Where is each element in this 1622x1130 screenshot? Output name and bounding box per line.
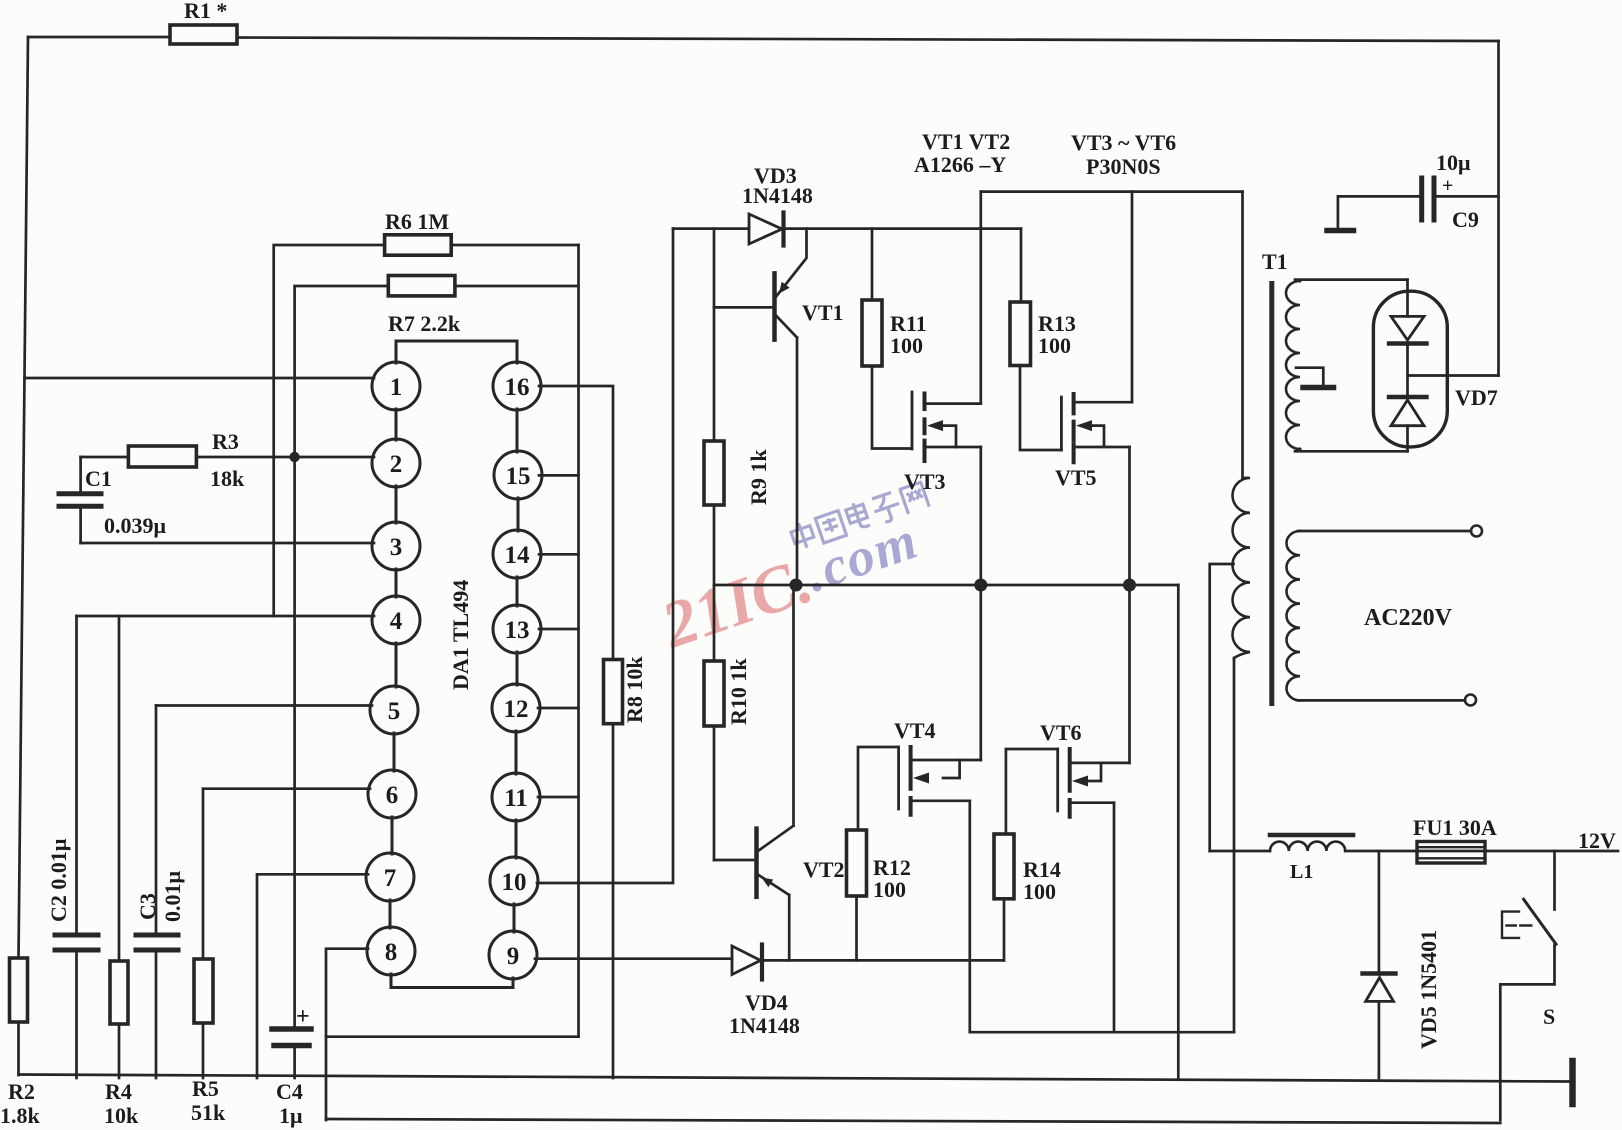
wire R14 bottom lead [1003,899,1006,961]
resistor R14 [994,834,1014,899]
wire R13 top feed [1020,229,1023,302]
wire VT6 drain down [1113,803,1116,1032]
pin 15 [494,451,542,499]
wire C3 bottom lead [155,950,158,1078]
node pin2 feedback junction [289,452,299,462]
wire pin 15 row [539,474,579,477]
svg-text:T1: T1 [1262,249,1288,274]
wire pin 12 row [538,707,579,710]
node junction VT3/VT4 [974,579,987,592]
wire feedback bus vertical (R6/R7 right to pins 15,14,13,12,11) [577,245,580,1037]
svg-text:VD7: VD7 [1455,385,1498,410]
wire VD5 branch [1378,851,1381,973]
wire pin 11 row [538,796,579,799]
svg-text:1N4148: 1N4148 [729,1013,800,1038]
resistor R3 [128,446,196,467]
wire R12 bottom lead [855,896,858,960]
pin 14 [493,530,541,578]
svg-text:2: 2 [390,451,403,478]
capacitor C2 [55,935,98,950]
dual diode VD7 capsule [1373,291,1447,447]
wire L1 to FU1 [1345,850,1417,853]
wire VD4 row (pin9 net to R12,R14 bottoms) [762,959,1004,962]
wire pin2 junction down to C4 [293,457,296,1029]
wire C2 bottom lead [75,950,78,1078]
resistor R2 [10,958,28,1022]
svg-text:18k: 18k [210,466,245,491]
pin 10 [490,857,538,905]
svg-text:A1266 –Y: A1266 –Y [914,152,1006,177]
wire pin 5 row [156,704,372,707]
svg-text:0.039μ: 0.039μ [104,513,167,538]
wire pin 2 row [197,456,375,459]
wire FU1 to 12V output [1417,850,1618,853]
wire switch bottom to bottom row [1500,945,1554,1120]
svg-text:R4: R4 [105,1079,132,1104]
switch S contact bracket [1502,912,1519,938]
wire primary-bottom row [970,1031,1234,1034]
svg-text:+: + [1442,175,1453,197]
wire upper supply rail [981,190,1243,193]
IC DA1 TL494 pin circles [366,362,542,979]
svg-text:VT3: VT3 [904,469,946,494]
wire top rail from left border through R1 to right border [28,37,1499,41]
svg-text:1: 1 [390,374,403,401]
svg-text:100: 100 [1023,879,1056,904]
svg-text:12: 12 [504,696,529,723]
MOSFET VT3 (P30N0S) [911,392,914,449]
T1 primary winding (left of core) [1233,478,1251,660]
resistor R11 [862,300,882,366]
wire AC winding top lead [1298,530,1471,533]
svg-text:100: 100 [890,333,923,358]
resistor R7 [388,276,455,296]
T1 feedback winding (top right of core) [1286,281,1300,449]
capacitor C9 electrolytic [1422,178,1434,220]
diode VD3 1N4148 [749,214,782,244]
resistor R12 [847,830,867,896]
pin 16 [493,362,541,410]
svg-text:100: 100 [1038,333,1071,358]
wire R11 top lead [871,229,874,300]
T1 AC220V winding (bottom right of core) [1287,531,1301,700]
svg-text:AC220V: AC220V [1364,605,1453,631]
MOSFET VT6 (P30N0S) [1056,749,1059,811]
wire switch branch [1553,851,1556,910]
svg-text:VT3 ~ VT6: VT3 ~ VT6 [1071,130,1176,155]
diode VD4 1N4148 [732,946,761,975]
wire T1 primary bottom end [1233,658,1236,1032]
wire output row to L1 [1210,850,1270,853]
svg-text:C9: C9 [1452,207,1479,232]
wire pin 1 net [25,377,375,380]
resistor R6 [385,235,452,255]
IC pin chain connectors [390,409,518,932]
wire pin 9 row to VD4 [535,957,732,960]
wire R4 bottom lead [118,1024,121,1078]
pin 1 [372,362,420,410]
pin 11 [492,773,540,821]
svg-text:C3: C3 [135,893,160,920]
pin 3 [372,522,420,570]
wire drain junction row [714,584,1178,587]
wire VT5 drain up to rail [1131,192,1134,403]
svg-text:9: 9 [507,943,520,970]
IC top connector pin1-pin16 [396,341,517,363]
svg-text:4: 4 [390,608,403,635]
resistor R13 [1010,302,1031,366]
svg-text:15: 15 [506,463,531,490]
wire R3 left lead [81,456,129,459]
svg-text:VT6: VT6 [1040,720,1082,745]
resistor R10 [704,661,724,726]
wire drive top row (VD3 anode to R13 corner) [673,227,1021,230]
svg-text:10μ: 10μ [1436,150,1471,175]
capacitor C1 [79,457,82,543]
VD7 top diode [1406,280,1409,317]
svg-text:C4: C4 [276,1079,303,1104]
wire VT6 gate feed from R14 [1006,749,1058,834]
wire R5 bottom lead [202,1023,205,1078]
svg-text:7: 7 [384,865,397,892]
svg-text:VD4: VD4 [745,990,788,1015]
svg-text:+: + [296,1004,310,1030]
pin 5 [370,686,418,734]
diode VD5 1N5401 [1363,971,1396,975]
svg-text:VD5 1N5401: VD5 1N5401 [1416,930,1441,1049]
wire bottom-most row [326,1119,1500,1123]
wire bus bottom branch to pin8 net [326,1035,579,1038]
wire feedback winding bottom lead [1295,449,1408,451]
wire C4 bottom lead [293,1046,296,1079]
wire pin 8 row down to bottom row [326,949,368,1120]
wire pin 16 net down through R8 [539,386,613,1078]
svg-text:13: 13 [505,617,530,644]
svg-text:VT1: VT1 [802,300,844,325]
watermark 21IC.com [646,480,951,663]
pin 7 [366,853,414,901]
pin 8 [367,927,415,975]
VD7 bottom diode [1389,395,1427,399]
wire pin 7 row down to ground row [257,874,368,1078]
svg-text:VT2: VT2 [803,857,845,882]
resistor R1 [170,25,237,44]
svg-text:R7 2.2k: R7 2.2k [388,311,461,336]
wire AC winding bottom lead [1298,699,1465,702]
wire R7 right lead [455,285,579,288]
svg-text:P30N0S: P30N0S [1086,154,1161,179]
svg-text:8: 8 [385,939,398,966]
terminal circle top [1471,526,1482,537]
svg-text:R2: R2 [8,1079,35,1104]
svg-text:C2 0.01μ: C2 0.01μ [46,838,71,922]
MOSFET VT4 (P30N0S) [897,747,900,809]
ground bar bottom right [1569,1061,1576,1104]
wire pin5 to C3 [155,706,158,936]
node junction VT5/VT6 [1123,579,1136,592]
svg-text:11: 11 [504,785,528,812]
svg-text:1μ: 1μ [279,1103,303,1128]
svg-text:L1: L1 [1290,861,1313,883]
svg-text:12V: 12V [1578,828,1616,853]
svg-text:R10 1k: R10 1k [726,658,751,725]
svg-text:0.01μ: 0.01μ [160,871,185,923]
wire VD7 output tap to right border [1408,374,1499,377]
wire feedback winding top lead [1295,280,1408,281]
svg-text:10k: 10k [104,1103,139,1128]
resistor R9 [704,441,724,505]
wire VT4 drain down to primary-bottom row [968,801,971,1032]
IC bottom connector pin8-pin9 [391,974,513,988]
fuse FU1 30A [1417,842,1485,864]
terminal circle bottom [1465,695,1476,706]
svg-text:6: 6 [386,782,399,809]
wire rail end down to T1 primary top [1241,192,1244,478]
pin 6 [368,770,416,818]
capacitor C3 [136,935,178,950]
svg-text:16: 16 [505,374,530,401]
wire pin4 to C2 [75,616,78,935]
svg-text:3: 3 [390,534,403,561]
svg-text:R6 1M: R6 1M [385,209,449,234]
svg-text:R9 1k: R9 1k [746,449,771,505]
svg-text:100: 100 [873,877,906,902]
MOSFET VT5 (P30N0S) [1060,397,1063,450]
switch S lever [1524,899,1556,944]
svg-text:VT4: VT4 [894,718,936,743]
ground bar at C9 [1327,228,1354,234]
wire R6 right lead [451,244,578,247]
svg-text:5: 5 [388,698,401,725]
resistor R5 [194,959,213,1023]
wire C9 left lead to ground [1338,196,1422,228]
transformer T1 core [1269,281,1274,706]
pin 13 [493,605,541,653]
wire pin 6 row [203,787,370,790]
svg-text:R3: R3 [212,429,239,454]
svg-text:51k: 51k [191,1100,226,1125]
svg-text:VT1 VT2: VT1 VT2 [922,129,1010,154]
wire R7 left lead down to pin2 junction [295,286,389,457]
svg-text:R5: R5 [192,1076,219,1101]
transistor VT1 (PNP A1266-Y) [772,273,777,339]
wire VT4 gate feed from R12 [858,747,899,830]
pin 2 [372,439,420,487]
svg-text:10: 10 [502,869,527,896]
L1 core bar [1270,833,1353,838]
wire pin6 to R5 [202,789,205,959]
wire pin 4 row [77,615,375,618]
wire pin4 to R4 [118,616,121,961]
wire feedback winding center tap [1296,368,1323,385]
wire R9/R10 chain vertical [713,229,716,860]
svg-text:R1 *: R1 * [184,0,227,23]
inductor L1 [1270,842,1345,851]
svg-text:FU1 30A: FU1 30A [1413,815,1497,840]
wire left border vertical [19,37,29,1075]
wire pin 10 row up to VD3 anode [537,229,673,883]
resistor R8 [604,660,623,724]
wire VT3 drain up to rail [979,192,982,404]
wire junction row end down to ground row [1177,585,1180,1078]
ground bar at T1 tap [1303,385,1334,391]
pin 12 [492,684,540,732]
transistor VT2 (PNP A1266-Y) [754,829,759,897]
wire C9 right lead [1434,195,1499,198]
wire VT2 base row [714,859,753,862]
svg-text:R8 10k: R8 10k [622,656,647,723]
pin 9 [489,931,537,979]
svg-text:S: S [1543,1004,1555,1029]
wire pin 3 row [81,542,374,545]
pin 4 [372,596,420,644]
wire R6 left lead down to pin 4 row [274,245,385,616]
wire pin 13 row [539,628,579,631]
svg-text:1N4148: 1N4148 [742,183,813,208]
resistor R4 [110,961,128,1024]
pin numbers [384,374,531,970]
capacitor C4 electrolytic [272,1029,311,1046]
wire VT1 base row [714,306,773,309]
wire ground row [19,1075,1571,1082]
wire R11 bottom lead to VT3 gate [872,366,912,449]
wire right border vertical down to C9 node and VD7 tap [1497,41,1500,376]
svg-text:1.8k: 1.8k [0,1103,41,1128]
wire VT3 source to junction to VT4 drain [979,447,982,760]
wire R13 bottom lead to VT5 gate [1020,366,1061,451]
svg-text:VT5: VT5 [1055,465,1097,490]
wire T1 primary center tap to L1 [1210,564,1234,851]
svg-text:C1: C1 [85,466,112,491]
svg-text:14: 14 [505,542,531,569]
wire pin 14 row [539,553,579,556]
node junction VT1/VT2 [790,579,803,592]
svg-text:DA1 TL494: DA1 TL494 [448,580,473,690]
wire VT5 source to junction to VT6 source [1128,447,1131,763]
